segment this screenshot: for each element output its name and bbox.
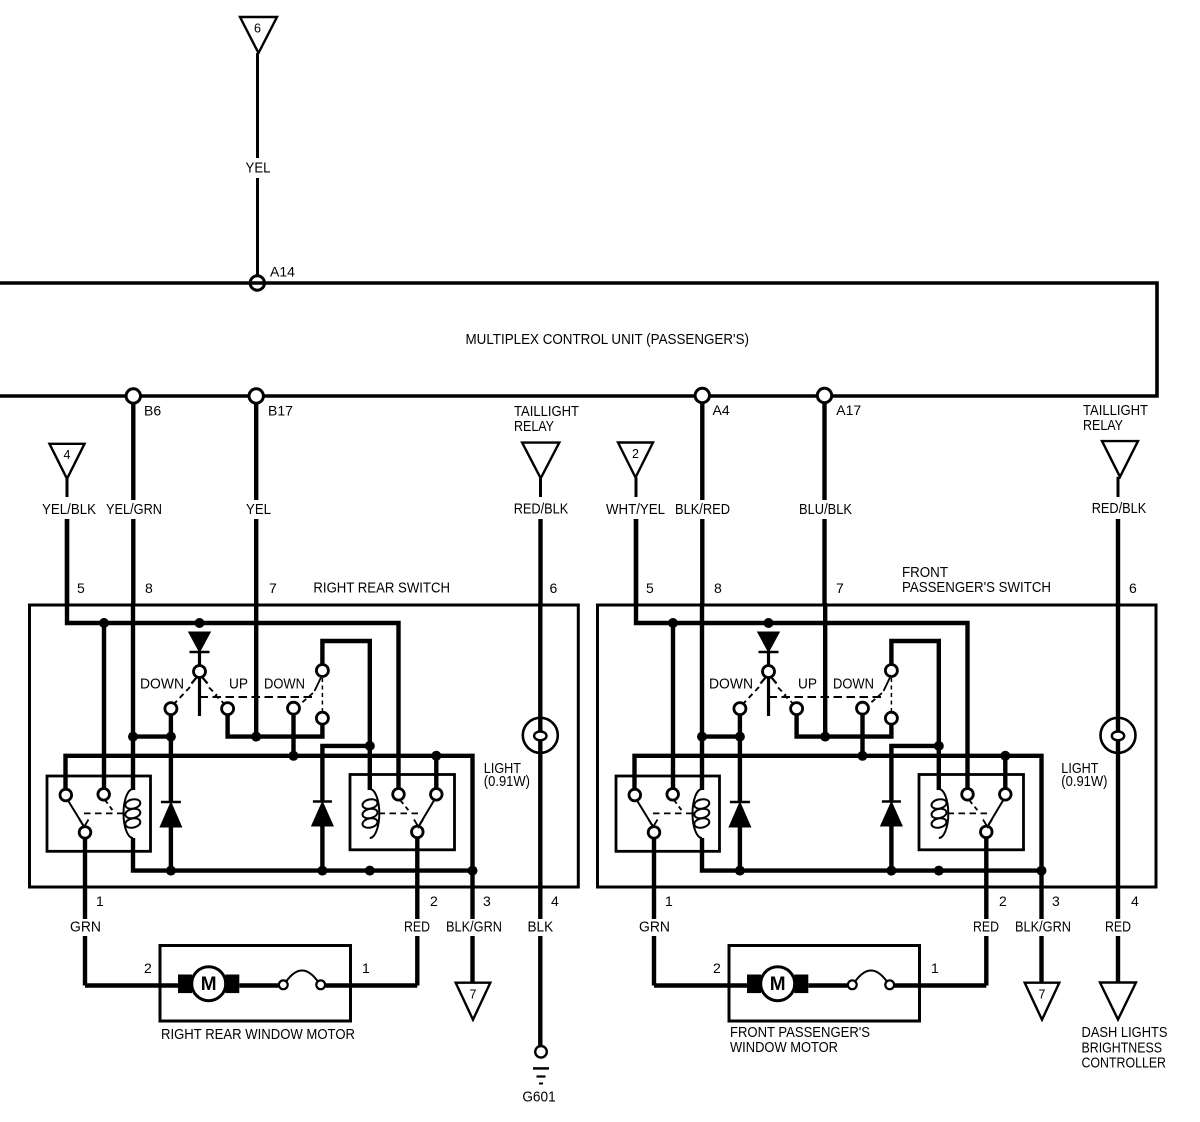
svg-text:BLK/RED: BLK/RED (675, 501, 730, 518)
connector triangle 7' (1025, 983, 1060, 1020)
wire bulb to pin4' (1116, 753, 1120, 887)
connector triangle 4 (50, 444, 85, 479)
svg-text:DOWN: DOWN (709, 677, 753, 693)
diode D3 (cathode top) (313, 800, 332, 803)
wire H2 common bus' (635, 756, 1042, 871)
wire pin7 vertical (254, 603, 258, 737)
wire coil1 bottom to bottom bus' (702, 838, 1042, 871)
motor M circle' (761, 967, 795, 1001)
relay2 coil' (939, 789, 949, 838)
svg-text:7: 7 (836, 580, 844, 596)
wire breaker to pin2 wire (325, 983, 417, 987)
svg-text:UP: UP (798, 677, 817, 693)
contact circle T3 (316, 712, 328, 724)
relay2 dash diagonal (401, 801, 410, 812)
node A4 terminal circle (695, 388, 709, 402)
relay1 coil (124, 789, 134, 838)
svg-text:BLK: BLK (527, 919, 553, 936)
wire V1' H1 to relay1 contact B (671, 623, 675, 789)
wire T1 contact down to H2' (860, 714, 864, 756)
svg-text:3: 3 (1052, 893, 1060, 909)
junction dot pin7-H3' (820, 732, 830, 742)
wire coil1 bottom to bottom bus (133, 838, 473, 871)
motor brush left' (747, 975, 761, 994)
relay1 contact B (98, 789, 110, 801)
junction dot coil2 feed' (934, 741, 944, 751)
junction dot down-contact' (735, 732, 745, 742)
relay2 contact B2' (962, 789, 974, 801)
svg-text:B17: B17 (268, 403, 293, 419)
junction dot coil2 feed (365, 741, 375, 751)
wire pin8 dot to coil1 top' (700, 737, 704, 790)
breaker contact right' (885, 980, 894, 989)
svg-text:YEL/BLK: YEL/BLK (42, 501, 96, 518)
switch arm left solid' (761, 678, 766, 684)
contact circle DOWN-left' (734, 703, 746, 715)
motor M circle (192, 967, 226, 1001)
svg-text:1: 1 (96, 893, 104, 909)
dash UP contact diagonal' (784, 695, 794, 704)
svg-text:PASSENGER'S SWITCH: PASSENGER'S SWITCH (902, 579, 1051, 596)
wire bulb to pin4 (538, 753, 542, 887)
relay2 dash diagonal' (970, 801, 979, 812)
relay2 box (350, 775, 455, 850)
svg-text:GRN: GRN (639, 919, 670, 936)
relay1 contact C (79, 827, 91, 839)
svg-text:BLK/GRN: BLK/GRN (446, 919, 502, 936)
node B6 terminal circle (126, 389, 140, 403)
connector triangle 7 (456, 983, 491, 1020)
wire H3 left segment (133, 734, 171, 738)
svg-text:2: 2 (430, 893, 438, 909)
connector triangle 2 (618, 443, 653, 478)
wire RED/BLK vertical (left) (539, 478, 542, 497)
wire BLU/BLK vertical (822, 403, 826, 500)
junction dot H1-D1' (764, 618, 774, 628)
motor brush left (178, 975, 192, 994)
svg-text:2: 2 (713, 960, 721, 976)
junction dot pin3-bus' (1037, 866, 1047, 876)
svg-text:RED: RED (1105, 919, 1131, 936)
wire dot to D3 corner (322, 746, 369, 801)
junction dot T1-H2' (858, 751, 868, 761)
svg-text:BLK/GRN: BLK/GRN (1015, 919, 1071, 936)
svg-text:RED/BLK: RED/BLK (1092, 500, 1147, 517)
connector triangle taillight relay (left) (522, 443, 559, 479)
svg-text:RIGHT REAR WINDOW MOTOR: RIGHT REAR WINDOW MOTOR (161, 1026, 355, 1043)
wire DOWN-left contact to dot' (738, 715, 742, 737)
relay1 dash horizontal' (653, 812, 693, 814)
wire DOWN-left contact to dot (169, 715, 173, 737)
wire pin1 below box (83, 887, 87, 919)
svg-text:2: 2 (632, 447, 639, 461)
wire A2 contact from H2' (1003, 756, 1007, 789)
relay1 contact C' (648, 827, 660, 839)
linkage dash M1 to UP side' (778, 688, 786, 696)
multiplex control unit box (0, 283, 1157, 396)
svg-text:3: 3 (483, 893, 491, 909)
svg-text:6: 6 (1129, 580, 1137, 596)
svg-text:RED: RED (404, 919, 430, 936)
svg-text:8: 8 (145, 580, 153, 596)
svg-text:7: 7 (269, 580, 277, 596)
svg-text:DASH LIGHTS: DASH LIGHTS (1082, 1024, 1168, 1041)
relay2 coil (370, 789, 380, 838)
connector triangle taillight relay (right) (1102, 441, 1138, 477)
relay2 arm' (988, 801, 1004, 827)
junction dot D2-bus (166, 866, 176, 876)
svg-text:G601: G601 (522, 1089, 555, 1106)
wire pin5 to top bus H1 (67, 519, 399, 789)
relay1 dash diagonal' (674, 800, 683, 812)
wire pin2 below box (415, 936, 419, 986)
svg-text:A17: A17 (836, 402, 861, 418)
svg-text:RELAY: RELAY (1083, 417, 1123, 434)
wire YEL vertical (254, 403, 258, 500)
wire RED/BLK vertical (right) (1117, 477, 1120, 497)
wire YEL/BLK vertical (66, 479, 69, 497)
svg-text:5: 5 (77, 580, 85, 596)
svg-text:6: 6 (550, 580, 558, 596)
svg-text:CONTROLLER: CONTROLLER (1082, 1055, 1167, 1072)
relay1 box (47, 776, 151, 851)
wire pin7 vertical' (823, 603, 827, 737)
junction dot pin8-H3 (128, 732, 138, 742)
svg-text:1: 1 (931, 960, 939, 976)
wire pin3 below box' (1039, 871, 1043, 919)
svg-text:MULTIPLEX CONTROL UNIT (PASSEN: MULTIPLEX CONTROL UNIT (PASSENGER'S) (466, 331, 750, 348)
svg-text:YEL: YEL (246, 160, 271, 177)
svg-text:5: 5 (646, 580, 654, 596)
svg-text:6: 6 (254, 22, 261, 36)
wire pin4 below box' (1116, 887, 1120, 919)
svg-text:M: M (770, 974, 786, 995)
wire motor to breaker (239, 983, 279, 987)
switch common M1 contact circle (194, 666, 206, 678)
svg-text:DOWN: DOWN (833, 677, 874, 693)
switch arm right solid' (772, 678, 777, 684)
junction dot pin3-bus (468, 866, 478, 876)
junction dot A2-H2' (1000, 751, 1010, 761)
wire YEL/GRN vertical (131, 403, 135, 500)
linkage dash vertical T2-T3' (890, 678, 892, 711)
wire pin8 vertical (131, 603, 135, 737)
relay2 contact A2 (431, 789, 443, 801)
illumination bulb (523, 718, 558, 753)
switch arm right solid (203, 678, 208, 684)
window motor box (160, 946, 351, 1022)
wire pin1 below box' (652, 887, 656, 919)
svg-text:(0.91W): (0.91W) (1061, 773, 1107, 790)
relay2 contact C2 (412, 826, 424, 838)
linkage dash M1 to DOWN contact' (743, 687, 760, 705)
svg-text:7: 7 (1039, 988, 1046, 1002)
breaker arc (287, 971, 318, 982)
motor brush right (225, 975, 239, 994)
wire UP contact to H3' (797, 714, 892, 736)
ground symbol G601 (535, 1046, 547, 1058)
wire pin8 dot to coil1 top (131, 737, 135, 790)
relay2 arm (419, 801, 435, 827)
wire H2 common bus (66, 756, 473, 871)
relay1 contact A (60, 789, 72, 801)
switch arm T2 solid (315, 678, 322, 692)
svg-text:4: 4 (1131, 893, 1139, 909)
illumination bulb' (1101, 718, 1136, 753)
relay2 dash horizontal' (948, 812, 989, 814)
node A14 terminal circle (250, 276, 264, 290)
linkage dash T2-T1' (867, 693, 882, 706)
wire UP contact to H3 (228, 714, 323, 736)
svg-text:M: M (201, 974, 217, 995)
diode D2 (cathode top) (169, 737, 173, 801)
relay1 dash horizontal (84, 812, 124, 814)
junction dot D3-bus (317, 866, 327, 876)
window motor box' (729, 946, 920, 1022)
contact circle T2 (316, 665, 328, 677)
wire relay1 C to pin 1' (652, 838, 656, 887)
contact circle T2' (885, 665, 897, 677)
linkage dashed horizontal (200, 696, 314, 698)
linkage dash M1 to UP side (209, 688, 217, 696)
svg-text:DOWN: DOWN (264, 677, 305, 693)
wire pin8 vertical' (700, 603, 704, 737)
svg-text:GRN: GRN (70, 919, 101, 936)
svg-text:BLU/BLK: BLU/BLK (799, 501, 852, 518)
connector triangle 6 (power feed) (240, 17, 277, 53)
relay1 dash diagonal (105, 800, 114, 812)
wire relay2 C2 to pin 2 (415, 838, 419, 919)
relay1 contact B' (667, 789, 679, 801)
svg-text:8: 8 (714, 580, 722, 596)
breaker contact left (279, 980, 288, 989)
svg-text:(0.91W): (0.91W) (484, 773, 530, 790)
wire T2 up-over to coil2 feed (322, 641, 369, 790)
svg-text:2: 2 (999, 893, 1007, 909)
node A17 terminal circle (817, 388, 831, 402)
svg-text:4: 4 (551, 893, 559, 909)
switch arm T2 solid' (884, 678, 891, 692)
junction dot coil2-bus' (934, 866, 944, 876)
junction dot H1-V1 (99, 618, 109, 628)
diode D2' (cathode top) (738, 737, 742, 801)
svg-text:RELAY: RELAY (514, 418, 554, 435)
junction dot D3-bus' (886, 866, 896, 876)
relay1 coil' (693, 789, 703, 838)
wire T2 up-over to coil2 feed' (891, 641, 938, 790)
connector triangle dash lights controller (1100, 983, 1136, 1020)
svg-text:7: 7 (470, 988, 477, 1002)
relay1 box' (616, 776, 720, 851)
svg-text:A4: A4 (713, 402, 730, 418)
svg-text:WHT/YEL: WHT/YEL (606, 501, 665, 518)
relay1 arm (68, 801, 84, 827)
relay2 contact A2' (1000, 789, 1012, 801)
switch arm left solid (192, 678, 197, 684)
junction dot pin7-H3 (251, 732, 261, 742)
svg-text:YEL/GRN: YEL/GRN (106, 501, 162, 518)
svg-text:A14: A14 (270, 264, 295, 280)
svg-text:WINDOW MOTOR: WINDOW MOTOR (730, 1039, 838, 1056)
front passenger's switch box (598, 605, 1157, 887)
wire pin6 to bulb (538, 603, 542, 753)
wire A2 contact from H2 (434, 756, 438, 789)
wire breaker to pin2 wire' (894, 983, 986, 987)
svg-text:1: 1 (362, 960, 370, 976)
svg-text:RED/BLK: RED/BLK (514, 500, 569, 517)
relay2 contact B2 (393, 789, 405, 801)
breaker contact left' (848, 980, 857, 989)
svg-text:RIGHT REAR SWITCH: RIGHT REAR SWITCH (313, 580, 450, 597)
svg-text:DOWN: DOWN (140, 677, 184, 693)
contact circle T1 (288, 702, 300, 714)
svg-text:UP: UP (229, 677, 248, 693)
wire pin6 to bulb' (1116, 603, 1120, 753)
wire GRN to motor (85, 983, 178, 987)
wire relay2 C2 to pin 2' (984, 838, 988, 919)
breaker arc' (856, 971, 887, 982)
junction dot D2-bus' (735, 866, 745, 876)
wire motor to breaker' (808, 983, 848, 987)
linkage dashed horizontal' (769, 696, 883, 698)
contact circle T3' (885, 712, 897, 724)
svg-text:B6: B6 (144, 403, 161, 419)
relay2 box' (919, 775, 1024, 850)
junction dot H1-V1' (668, 618, 678, 628)
switch common M1' contact circle (763, 666, 775, 678)
linkage dash T2-T1 (298, 693, 313, 706)
wire GRN to motor' (654, 983, 747, 987)
linkage dash M1 to DOWN contact (174, 687, 191, 705)
wire YEL vertical (top) (256, 53, 259, 158)
wire pin3 below box (470, 871, 474, 919)
node B17 terminal circle (249, 389, 263, 403)
linkage dash vertical T2-T3 (321, 678, 323, 711)
relay2 contact C2' (981, 826, 993, 838)
junction dot A2-H2 (431, 751, 441, 761)
svg-text:2: 2 (144, 960, 152, 976)
junction dot H1-D1 (195, 618, 205, 628)
wire dot to D3 corner' (891, 746, 938, 801)
junction dot pin8-H3' (697, 732, 707, 742)
breaker contact right (316, 980, 325, 989)
relay1 contact A' (629, 789, 641, 801)
diode D3' (cathode top) (882, 800, 901, 803)
svg-text:1: 1 (665, 893, 673, 909)
junction dot down-contact (166, 732, 176, 742)
wire pin2 below box' (984, 936, 988, 986)
junction dot T1-H2 (289, 751, 299, 761)
wire relay1 C to pin 1 (83, 838, 87, 887)
wire pin4 below box (538, 887, 542, 919)
svg-text:4: 4 (64, 448, 71, 462)
diode D1 (anode top) (190, 633, 210, 652)
svg-text:YEL: YEL (246, 501, 271, 518)
wire BLK/RED vertical (700, 403, 704, 500)
contact circle UP' (791, 703, 803, 715)
wire V1 H1 to relay1 contact B (102, 623, 106, 789)
diode D1' (anode top) (759, 633, 779, 652)
right rear switch box (30, 605, 579, 887)
dash UP contact diagonal (215, 695, 225, 704)
contact circle UP (222, 703, 234, 715)
junction dot coil2-bus (365, 866, 375, 876)
wire H3 left segment' (702, 734, 740, 738)
svg-text:RED: RED (973, 919, 999, 936)
contact circle T1' (857, 702, 869, 714)
relay2 dash horizontal (379, 812, 420, 814)
relay1 arm' (637, 801, 653, 827)
contact circle DOWN-left (165, 703, 177, 715)
wire pin5 to top bus H1' (636, 519, 968, 789)
wire WHT/YEL vertical (635, 478, 638, 498)
motor brush right' (794, 975, 808, 994)
wire T1 contact down to H2 (291, 714, 295, 756)
